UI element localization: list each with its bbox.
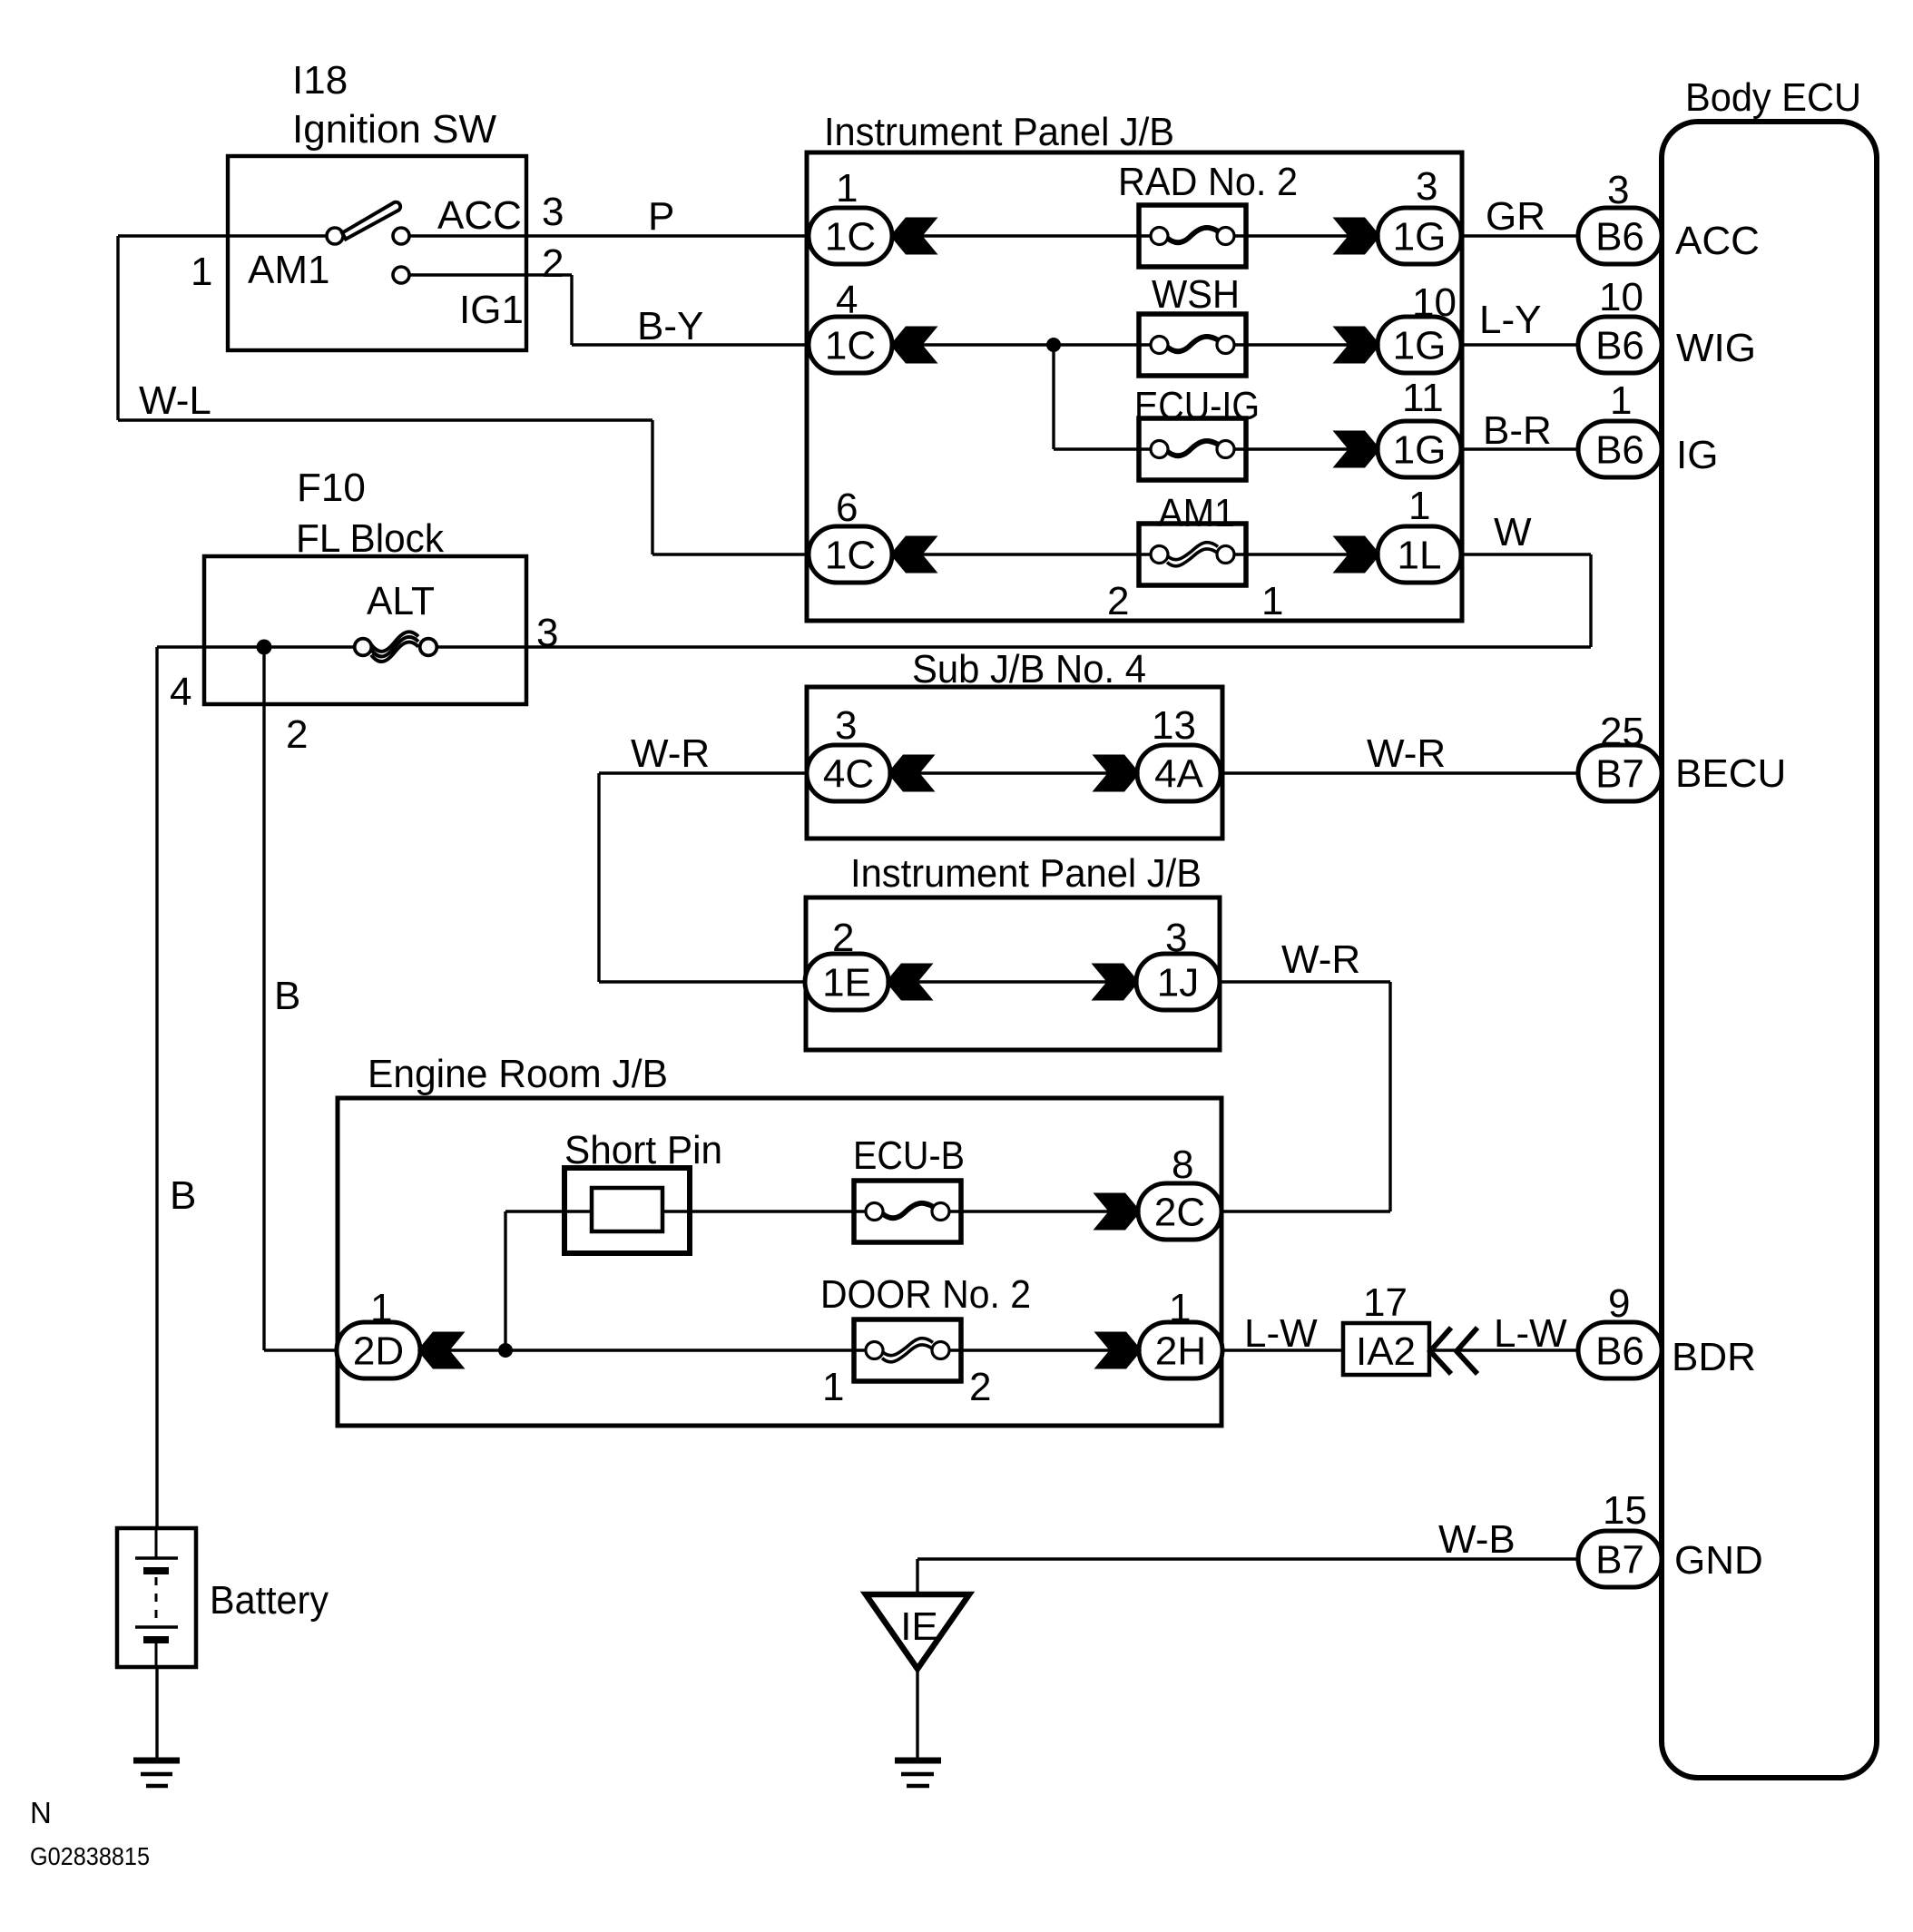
wire: B-R to B6 IG xyxy=(1461,447,1578,450)
FL Block F10 box xyxy=(204,556,526,704)
svg-text:4A: 4A xyxy=(1154,752,1203,797)
fuse ECU-B xyxy=(854,1181,961,1242)
battery plate short thick lower xyxy=(143,1636,169,1643)
wire: W-R drop to 2C xyxy=(1388,982,1391,1211)
ground under battery xyxy=(133,1758,180,1764)
svg-text:1: 1 xyxy=(191,250,212,294)
svg-text:W-L: W-L xyxy=(139,378,211,423)
Instrument Panel J/B box 1 xyxy=(807,152,1462,621)
connector B7 GND pin15 xyxy=(1578,1531,1662,1587)
svg-text:B-Y: B-Y xyxy=(637,304,703,348)
svg-text:1: 1 xyxy=(836,166,858,211)
svg-text:2: 2 xyxy=(1107,579,1129,623)
connector 1E pin2 xyxy=(805,954,888,1010)
svg-text:AM1: AM1 xyxy=(248,248,329,292)
svg-text:Engine Room J/B: Engine Room J/B xyxy=(368,1052,668,1096)
wire: DOOR to 2H xyxy=(947,1348,1139,1351)
svg-text:B7: B7 xyxy=(1595,752,1644,797)
svg-text:I18: I18 xyxy=(292,58,348,103)
connector B7 BECU pin25 xyxy=(1578,745,1662,801)
battery plate positive long xyxy=(135,1556,178,1559)
battery dashed cell link xyxy=(155,1577,158,1618)
svg-text:1: 1 xyxy=(1408,484,1430,528)
svg-text:1C: 1C xyxy=(825,324,876,368)
wire: into 1E xyxy=(599,980,805,983)
svg-text:B: B xyxy=(170,1173,196,1218)
connector 1G pin10 xyxy=(1378,317,1461,373)
harness arrow at 2D xyxy=(417,1332,466,1369)
connector B6 BDR pin9 xyxy=(1578,1322,1662,1378)
harness arrow at 4C xyxy=(888,755,936,792)
svg-text:IA2: IA2 xyxy=(1356,1329,1416,1374)
wire: into 1C pin6 xyxy=(652,553,808,555)
battery plate short thick xyxy=(143,1567,169,1574)
svg-text:10: 10 xyxy=(1599,275,1643,319)
svg-text:B: B xyxy=(274,974,300,1018)
wire: L-Y to B6 WIG xyxy=(1461,343,1578,346)
svg-text:1G: 1G xyxy=(1393,324,1447,368)
Engine Room J/B box xyxy=(338,1098,1221,1426)
fusible link AM1 xyxy=(1139,524,1246,585)
svg-text:1: 1 xyxy=(822,1365,844,1409)
svg-text:13: 13 xyxy=(1152,703,1196,748)
svg-text:G02838815: G02838815 xyxy=(30,1842,150,1870)
Sub J/B No.4 box xyxy=(807,687,1222,839)
svg-text:B6: B6 xyxy=(1595,324,1644,368)
connector 1L pin1 xyxy=(1378,526,1461,583)
wire: B-Y drop xyxy=(570,275,573,345)
harness arrow at 1E xyxy=(886,964,934,1001)
connector 2D pin1 xyxy=(337,1322,420,1378)
svg-text:ECU-B: ECU-B xyxy=(853,1133,965,1178)
wire: L-W IA2 to B6 BDR xyxy=(1432,1348,1578,1351)
svg-text:3: 3 xyxy=(1416,164,1437,209)
svg-text:Short Pin: Short Pin xyxy=(564,1128,722,1172)
svg-text:15: 15 xyxy=(1603,1488,1647,1533)
svg-text:W-B: W-B xyxy=(1438,1517,1516,1562)
svg-text:B-R: B-R xyxy=(1483,408,1552,453)
battery plate long lower xyxy=(135,1625,178,1628)
svg-text:BECU: BECU xyxy=(1675,751,1786,796)
wire: B down to 2D row xyxy=(262,647,265,1350)
wire: 2D to DOOR fuse xyxy=(420,1348,869,1351)
wire: W from 1L xyxy=(1461,553,1591,555)
battery internal top lead xyxy=(155,1528,158,1558)
harness arrow at 1C4 xyxy=(890,327,938,364)
node: junction on 2D row xyxy=(498,1343,513,1358)
connector 2C pin8 xyxy=(1138,1183,1221,1240)
wire: IG1 contact to right xyxy=(401,273,572,276)
wire: 1C6 to AM1 fuse xyxy=(893,553,1159,555)
svg-text:ACC: ACC xyxy=(1675,219,1760,263)
svg-text:1: 1 xyxy=(1261,579,1283,623)
svg-text:2H: 2H xyxy=(1155,1329,1206,1374)
wire: W-R from 1J xyxy=(1220,980,1390,983)
harness arrow at 2H xyxy=(1094,1332,1143,1369)
svg-text:4: 4 xyxy=(836,278,858,322)
wire: W-R left of 4C xyxy=(599,771,807,774)
wire: short pin drop to 2D row xyxy=(504,1211,506,1350)
wire: P net from ignition ACC contact to 1C pin1 xyxy=(401,234,808,237)
switch contact IG1 xyxy=(393,267,409,283)
svg-text:B7: B7 xyxy=(1595,1538,1644,1583)
wire: B-Y to 1C pin4 xyxy=(572,343,808,346)
connector B6 IG pin1 xyxy=(1578,421,1662,477)
svg-text:8: 8 xyxy=(1172,1143,1193,1187)
wire: 1E to 1J xyxy=(888,980,1136,983)
wire: L-W 2H to IA2 xyxy=(1222,1348,1343,1351)
svg-text:F10: F10 xyxy=(297,466,366,510)
svg-text:B6: B6 xyxy=(1595,428,1644,473)
svg-text:1J: 1J xyxy=(1157,961,1199,1005)
fuse WSH xyxy=(1139,314,1246,376)
ground under IE xyxy=(895,1758,941,1764)
switch contact ACC xyxy=(393,228,409,244)
svg-text:Sub J/B No. 4: Sub J/B No. 4 xyxy=(912,647,1146,691)
harness arrow at 2C xyxy=(1094,1193,1142,1231)
wire: into 2C xyxy=(1223,1210,1390,1212)
harness arrow at 4A xyxy=(1093,755,1141,792)
svg-text:FL Block: FL Block xyxy=(296,516,445,561)
svg-text:3: 3 xyxy=(536,611,558,655)
svg-text:2D: 2D xyxy=(353,1329,404,1374)
svg-text:9: 9 xyxy=(1608,1281,1630,1326)
svg-text:L-W: L-W xyxy=(1494,1311,1567,1356)
svg-text:1L: 1L xyxy=(1398,534,1442,578)
svg-text:Instrument Panel J/B: Instrument Panel J/B xyxy=(824,110,1174,154)
wire: into 2D xyxy=(264,1348,337,1351)
svg-text:RAD No. 2: RAD No. 2 xyxy=(1118,160,1298,204)
Short Pin outer box xyxy=(564,1168,690,1253)
svg-text:L-Y: L-Y xyxy=(1479,298,1541,342)
wire: W-R 4A to B7 BECU xyxy=(1221,771,1578,774)
svg-text:6: 6 xyxy=(836,485,858,530)
svg-text:W: W xyxy=(1494,510,1532,554)
svg-text:WIG: WIG xyxy=(1676,326,1756,370)
svg-text:3: 3 xyxy=(835,703,857,748)
battery box xyxy=(117,1528,196,1667)
wire: ECU-IG to 1G11 xyxy=(1225,447,1378,450)
svg-text:11: 11 xyxy=(1402,376,1444,420)
fusible link ALT in FL block xyxy=(355,632,437,662)
svg-text:IG1: IG1 xyxy=(459,288,524,332)
wire: short pin row xyxy=(505,1210,869,1212)
svg-text:IG: IG xyxy=(1676,433,1718,477)
wire: 4C to 4A xyxy=(890,771,1137,774)
svg-text:GND: GND xyxy=(1674,1538,1763,1583)
svg-text:1E: 1E xyxy=(822,961,871,1005)
Instrument Panel J/B box 2 xyxy=(806,897,1220,1050)
connector 2H pin1 xyxy=(1139,1322,1222,1378)
wire: ECU-B to 2C xyxy=(947,1210,1138,1212)
wire: 1C1 to RAD fuse xyxy=(893,234,1159,237)
svg-text:B6: B6 xyxy=(1595,215,1644,260)
svg-text:IE: IE xyxy=(900,1604,938,1649)
connector B6 WIG pin10 xyxy=(1578,317,1662,373)
svg-text:WSH: WSH xyxy=(1152,272,1240,317)
svg-text:3: 3 xyxy=(1607,168,1629,212)
svg-text:10: 10 xyxy=(1412,280,1457,325)
svg-text:3: 3 xyxy=(1165,916,1187,960)
svg-text:L-W: L-W xyxy=(1244,1311,1318,1356)
wire: ALT circle to FL right xyxy=(436,645,526,648)
ignition switch lever xyxy=(342,202,400,240)
wire: junction drop WSH to ECU-IG xyxy=(1052,345,1055,449)
connector 1G pin3 xyxy=(1378,208,1461,264)
connector B6 ACC pin3 xyxy=(1578,208,1662,264)
svg-text:1G: 1G xyxy=(1393,215,1447,260)
harness arrow at 1L xyxy=(1333,536,1381,574)
node: junction on WSH wire xyxy=(1046,338,1061,352)
svg-text:Ignition SW: Ignition SW xyxy=(292,107,496,152)
wire: GR to B6 ACC xyxy=(1461,234,1578,237)
wire: AM1 pin1 from contact to left xyxy=(118,234,335,237)
harness arrow at 1C6 xyxy=(890,536,938,574)
connector 1G pin11 xyxy=(1378,421,1461,477)
wire: to ECU-IG fuse xyxy=(1054,447,1159,450)
svg-text:GR: GR xyxy=(1486,194,1545,239)
switch contact AM1 xyxy=(327,228,343,244)
svg-text:N: N xyxy=(30,1796,52,1829)
svg-text:4: 4 xyxy=(170,670,191,714)
connector 1C pin4 xyxy=(809,317,892,373)
Short Pin inner box xyxy=(592,1188,662,1231)
wire: long W to FL block pin3 xyxy=(526,645,1591,648)
connector 1C pin6 xyxy=(809,526,892,583)
wire: drop to IE triangle xyxy=(916,1559,918,1594)
connector 1C pin1 xyxy=(809,208,892,264)
wire: FL block left to ALT circle xyxy=(204,645,356,648)
harness arrow at 1G10 xyxy=(1333,327,1381,364)
svg-text:4C: 4C xyxy=(823,752,874,797)
Body ECU box xyxy=(1662,122,1877,1778)
svg-text:17: 17 xyxy=(1363,1280,1408,1325)
wire: WSH to 1G10 xyxy=(1225,343,1378,346)
harness arrow at 1G3 xyxy=(1333,218,1381,255)
svg-text:1: 1 xyxy=(1169,1286,1191,1330)
wire: battery feed down xyxy=(155,647,158,1528)
node: junction in FL block xyxy=(257,640,272,655)
wire: battery to ground xyxy=(155,1667,158,1760)
wire: FL pin4 out xyxy=(157,645,204,648)
svg-text:ACC: ACC xyxy=(437,193,522,238)
svg-text:W-R: W-R xyxy=(631,731,710,776)
wire: W-L vertical left xyxy=(116,236,119,420)
svg-text:B6: B6 xyxy=(1595,1329,1644,1374)
svg-text:Battery: Battery xyxy=(210,1578,329,1623)
svg-text:Body ECU: Body ECU xyxy=(1685,75,1861,120)
svg-text:W-R: W-R xyxy=(1367,731,1446,776)
svg-text:1: 1 xyxy=(370,1286,392,1330)
wire: W-B to B7 GND xyxy=(917,1557,1578,1560)
wire: AM1 fuse to 1L1 xyxy=(1225,553,1378,555)
svg-text:2: 2 xyxy=(286,712,308,757)
connector 4C pin3 xyxy=(807,745,890,801)
ignition switch I18 box xyxy=(228,156,526,350)
fuse DOOR No. 2 xyxy=(854,1319,961,1381)
svg-text:Instrument Panel J/B: Instrument Panel J/B xyxy=(850,851,1202,896)
wire: W-L drop to 1C pin6 xyxy=(651,420,653,554)
svg-text:3: 3 xyxy=(542,190,564,234)
svg-text:P: P xyxy=(648,194,674,239)
svg-text:W-R: W-R xyxy=(1281,937,1360,982)
battery internal bottom lead xyxy=(155,1640,158,1667)
svg-text:25: 25 xyxy=(1600,710,1644,754)
wire: W-R drop xyxy=(597,773,600,982)
wire: W drop xyxy=(1589,554,1592,647)
connector 1J pin3 xyxy=(1136,954,1220,1010)
svg-text:2C: 2C xyxy=(1154,1191,1205,1235)
svg-text:1C: 1C xyxy=(825,215,876,260)
wire: RAD fuse to 1G3 xyxy=(1225,234,1378,237)
svg-text:2: 2 xyxy=(832,916,854,960)
fuse RAD No. 2 xyxy=(1139,205,1246,267)
wire: W-L horizontal xyxy=(118,418,652,421)
double chevron at IA2 xyxy=(1430,1328,1477,1374)
svg-text:ALT: ALT xyxy=(367,579,435,623)
svg-text:AM1: AM1 xyxy=(1158,491,1235,535)
junction connector IA2 xyxy=(1343,1323,1429,1375)
svg-text:1: 1 xyxy=(1610,378,1632,423)
wire: 1C4 to WSH fuse xyxy=(893,343,1159,346)
wire: IE triangle to ground xyxy=(916,1668,918,1760)
harness arrow at 1G11 xyxy=(1333,431,1381,468)
fuse ECU-IG xyxy=(1139,418,1246,480)
svg-text:2: 2 xyxy=(969,1365,991,1409)
connector 4A pin13 xyxy=(1137,745,1221,801)
svg-text:BDR: BDR xyxy=(1672,1335,1756,1379)
svg-text:ECU-IG: ECU-IG xyxy=(1134,384,1260,428)
svg-text:1G: 1G xyxy=(1393,428,1447,473)
harness arrow at 1C1 xyxy=(890,218,938,255)
svg-text:2: 2 xyxy=(542,241,564,286)
harness arrow at 1J xyxy=(1092,964,1140,1001)
svg-text:DOOR No. 2: DOOR No. 2 xyxy=(820,1272,1031,1317)
svg-text:1C: 1C xyxy=(825,534,876,578)
ground triangle IE xyxy=(866,1594,969,1669)
